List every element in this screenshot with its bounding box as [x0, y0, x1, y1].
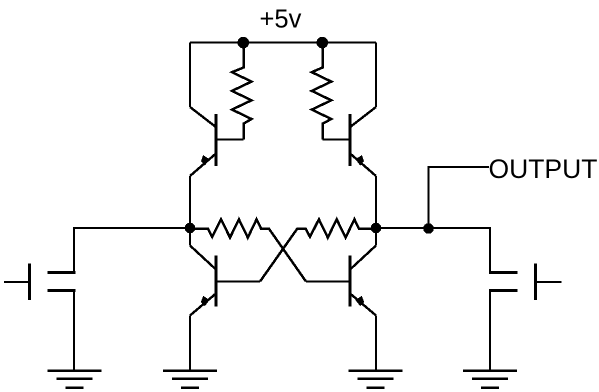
junction dot R2 top — [317, 37, 329, 49]
wire M1 drain to node A — [74, 228, 190, 273]
transistor Q2 — [350, 107, 377, 176]
resistor R3 cross-coupled left — [190, 219, 306, 281]
wire Q2 collector to rail — [375, 43, 377, 108]
transistor Q4 — [350, 246, 377, 316]
wire R2 bottom to Q2 base — [323, 139, 351, 141]
node A dot — [185, 223, 196, 234]
svg-text:+5v: +5v — [260, 5, 302, 33]
wire Q3 emitter to ground — [189, 316, 191, 371]
ground G3 — [349, 371, 403, 388]
wire Q4 emitter to ground — [375, 316, 377, 371]
wire node B to Q4 collector — [375, 228, 377, 246]
wire node B to M2 drain — [376, 228, 490, 273]
node B dot — [371, 223, 382, 234]
junction dot R1 top — [238, 37, 250, 49]
wire R1 bottom to Q1 base — [216, 139, 244, 141]
ground G4 — [463, 371, 517, 388]
ground G2 — [163, 371, 217, 388]
transistor M2 (right access MOSFET) — [489, 264, 562, 301]
ground G1 — [48, 371, 102, 388]
wire M1 source to ground — [73, 291, 75, 371]
wire output branch — [429, 167, 490, 229]
transistor Q1 — [190, 107, 217, 176]
wire Q2 emitter to node B — [375, 176, 377, 228]
wire R4 to Q3 base — [216, 281, 260, 283]
wire node A to Q3 collector — [189, 228, 191, 246]
transistor M1 (left access MOSFET) — [4, 264, 76, 301]
wire Q1 collector to rail — [189, 43, 191, 108]
junction dot output branch — [423, 223, 434, 234]
resistor R4 cross-coupled right — [260, 219, 376, 281]
svg-text:OUTPUT: OUTPUT — [489, 154, 598, 184]
transistor Q3 — [190, 246, 217, 316]
resistor R1 — [232, 43, 252, 140]
wire Q1 emitter to node A — [189, 176, 191, 228]
wire +5V rail — [190, 42, 376, 44]
wire M2 source to ground — [489, 291, 491, 371]
resistor R2 — [312, 43, 332, 140]
wire R3 to Q4 base — [306, 281, 350, 283]
